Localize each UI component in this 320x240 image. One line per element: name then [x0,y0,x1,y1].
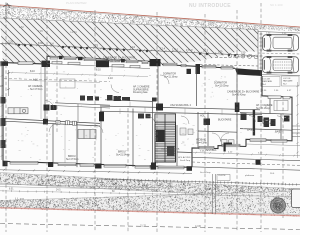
svg-text:150: 150 [241,51,246,55]
red sloped boundary line [0,5,300,27]
svg-text:Su=17.5mp: Su=17.5mp [66,158,79,161]
svg-text:Su=4.2mp: Su=4.2mp [180,160,191,162]
svg-text:PLAN PARTER: PLAN PARTER [66,1,87,5]
svg-text:SC 1:100: SC 1:100 [270,3,283,7]
svg-text:7.75: 7.75 [93,44,99,48]
misc dim texts [200,172,275,177]
svg-text:CURTE ENGLEZA: CURTE ENGLEZA [161,148,180,151]
svg-text:2.45: 2.45 [38,30,43,33]
mid-bottom box labels [217,175,230,181]
svg-text:Su=11.16mp: Su=11.16mp [164,75,178,78]
kitchen counter left [8,108,28,114]
dim rows under mid-wing [192,144,300,157]
bathroom fixtures right wing [241,114,290,128]
top wall window lintel [18,62,33,65]
room labels [28,57,281,162]
svg-text:4.10: 4.10 [33,79,38,82]
bottom dashed property line [0,224,300,230]
thin lines between bands [0,184,300,197]
svg-text:8.10: 8.10 [30,70,35,73]
bottom wall windows right wing [250,139,287,142]
building outer wall [3,56,292,167]
svg-text:n 2.81: n 2.81 [70,31,77,34]
dark L wall vestibul [224,143,233,152]
tiny text above bottom line [140,225,202,229]
pier 196 [196,64,201,74]
small dim text under parking [262,90,292,92]
top-left survey mark [3,3,12,20]
svg-text:PARCARE: PARCARE [283,80,293,83]
svg-text:Su=76.16mp: Su=76.16mp [256,107,270,110]
corridor wall column symbols [56,120,77,125]
walkway band right [192,157,300,170]
svg-text:17.5: 17.5 [203,49,209,53]
svg-text:NU INTRODUCE: NU INTRODUCE [189,3,231,9]
svg-text:3.20: 3.20 [8,39,14,43]
dim row under hatch right [200,57,258,67]
svg-text:BAIE: BAIE [247,129,253,132]
misc interior jamb lines [41,66,222,167]
dark wall pier corridor [99,112,104,122]
CT boxes [222,140,235,146]
small fixtures mid [138,114,151,119]
svg-text:Su=26.43mp: Su=26.43mp [232,93,246,96]
dashed separators parking [258,53,300,54]
svg-text:177.3: 177.3 [186,48,193,52]
partition pair 55-110 [55,103,110,123]
extra counter blocks [80,96,99,101]
dim row mid bottom [100,178,300,186]
faint scan noise [13,70,291,160]
shrub circles row [228,54,258,59]
dim row below building left [0,169,192,174]
sink block 204 [204,119,211,126]
svg-text:BUCATARIE: BUCATARIE [218,119,232,122]
left edge bottom dark marks [0,0,1,1]
dark wall x253 [253,110,255,136]
svg-text:Dressing baie: Dressing baie [133,91,148,94]
windows along upper top wall [50,56,148,63]
bottom wall windows left [10,161,184,169]
stipple band under red boundary [0,6,300,32]
pier above stair [156,104,163,111]
table left apt [60,79,75,88]
bed right wing [274,101,288,111]
svg-text:Su=12.05mp: Su=12.05mp [215,84,229,87]
pier 187 [187,69,192,74]
top wall dark corner pier [42,61,51,67]
left wall fixtures [1,97,6,148]
dark blocks left apartment [43,105,57,125]
svg-text:170.1: 170.1 [172,47,179,51]
lower parallel row 47-150 [47,62,150,69]
interior dim lines left apt [8,72,148,83]
svg-text:Su=13.2mp: Su=13.2mp [262,122,275,125]
svg-text:2.4: 2.4 [50,41,54,45]
svg-text:12.4: 12.4 [160,47,166,51]
svg-text:130: 130 [218,50,223,54]
svg-text:Su=17.5mp: Su=17.5mp [30,88,43,91]
parking dim ticks [260,33,263,73]
big dark pier mid top wall [150,59,161,66]
stamp logo circle [270,198,285,213]
counter row top-center [107,95,157,102]
staircase core [155,114,176,162]
dark square on walkway [256,160,261,165]
dimension string through hatch band [0,42,255,56]
parking label boxes [261,76,299,87]
svg-text:platforma: platforma [245,174,255,177]
svg-text:VESTIBUL: VESTIBUL [205,149,217,152]
dark pier 235 top [235,103,240,113]
left edge dim chain [1,62,3,160]
svg-text:5.10: 5.10 [130,45,136,49]
dim numbers in hatch [8,39,246,54]
svg-text:PARCARE: PARCARE [263,80,273,83]
svg-text:USA SCARA BOL 2: USA SCARA BOL 2 [170,104,192,107]
svg-text:4.10: 4.10 [108,77,113,80]
stair landing dark [155,114,176,122]
bottom wall piers left [3,161,193,171]
left room counter w/ sink [78,130,96,139]
double vertical line through bands [213,174,216,214]
top wall piers [59,56,125,63]
right wing top windows [268,96,290,99]
door arcs [45,75,284,142]
svg-text:8.10: 8.10 [96,69,101,72]
dark tick clusters on dim string [18,44,237,57]
interior partitions [5,66,292,168]
left edge dim marks [0,62,10,96]
parking boundary lines [258,30,300,76]
stipple band A (upper road) [0,173,300,200]
svg-text:Su=4.2mp: Su=4.2mp [196,141,208,144]
car 2 [263,56,299,73]
long dashed line left apt [4,79,110,82]
wall right of stair + curte engleza [177,125,192,167]
red dashed site boundary bottom [0,207,300,216]
tiny texts in hatch upper-left [19,26,77,34]
svg-text:BAIE: BAIE [275,131,281,134]
right edge dim chain [296,82,298,158]
dark top band mid-wing [235,68,262,76]
bottom wall windows mid-wing [199,144,240,149]
stipple band B (lower road) [0,191,300,215]
stair dark flight [156,130,165,142]
svg-text:Su=22.71mp: Su=22.71mp [106,60,120,63]
svg-text:1.52: 1.52 [19,26,24,29]
L4p marks [15,197,24,201]
svg-text:8.90: 8.90 [38,41,44,45]
box at right edge [292,189,302,208]
exterior steps right of building [293,126,301,137]
big pier lower row [96,60,109,67]
wc fixtures right of stair [180,128,193,135]
car 1 [263,34,299,51]
windows mid top wall [163,63,233,69]
svg-text:HOL: HOL [200,115,206,118]
numbers in band A [18,177,244,193]
svg-text:HOL ACCES: HOL ACCES [178,156,191,159]
hatched embankment wedge [0,18,258,65]
